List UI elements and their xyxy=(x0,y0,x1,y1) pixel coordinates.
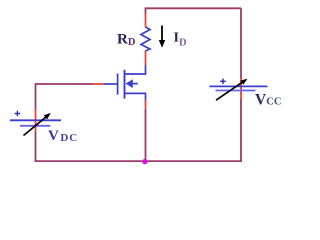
transistor Q1 channel bar xyxy=(124,70,126,99)
svg-text:ID: ID xyxy=(174,30,187,48)
junction node (source/ground rail) xyxy=(142,159,147,164)
wire left lower (VDC - to rail) xyxy=(35,132,37,162)
battery VDC minus plate xyxy=(20,125,50,127)
wire right lower (VCC - to ground rail) xyxy=(240,99,242,162)
battery VDC plus sign xyxy=(15,111,21,117)
current arrow ID xyxy=(159,26,165,48)
svg-text:VCC: VCC xyxy=(255,91,282,108)
transistor Q1 substrate arrow xyxy=(126,79,138,88)
transistor Q1 drain connection xyxy=(125,65,146,74)
resistor RD zigzag xyxy=(141,27,150,51)
wire right upper (to VCC +) xyxy=(240,8,242,79)
transistor Q1 gate bar xyxy=(117,74,119,95)
battery VCC minus plate xyxy=(216,90,256,92)
wire resistor bottom lead to drain (red) xyxy=(145,51,147,66)
battery VCC plus sign xyxy=(220,79,226,85)
wire top (drain net) xyxy=(146,8,242,14)
wire bottom rail xyxy=(35,160,242,162)
svg-text:VDC: VDC xyxy=(48,128,78,144)
transistor Q1 source connection xyxy=(125,93,146,100)
svg-text:RD: RD xyxy=(117,32,136,49)
wire VDC lead stub (red) xyxy=(35,109,37,132)
battery VDC variable arrow xyxy=(24,113,51,136)
wire source down to rail xyxy=(145,109,147,162)
wire left upper (VDC + up to gate) xyxy=(36,84,94,109)
wire source lead stub (red) xyxy=(145,100,147,110)
wire VCC lead stub (red) xyxy=(240,78,242,99)
battery VCC plus plate xyxy=(210,85,268,87)
battery VCC variable arrow xyxy=(216,79,248,100)
wire resistor top lead (red) xyxy=(145,13,147,28)
wire gate stub (red) xyxy=(93,83,104,85)
transistor Q1 MOSFET gate lead xyxy=(104,83,118,85)
battery VDC plus plate xyxy=(10,119,61,121)
